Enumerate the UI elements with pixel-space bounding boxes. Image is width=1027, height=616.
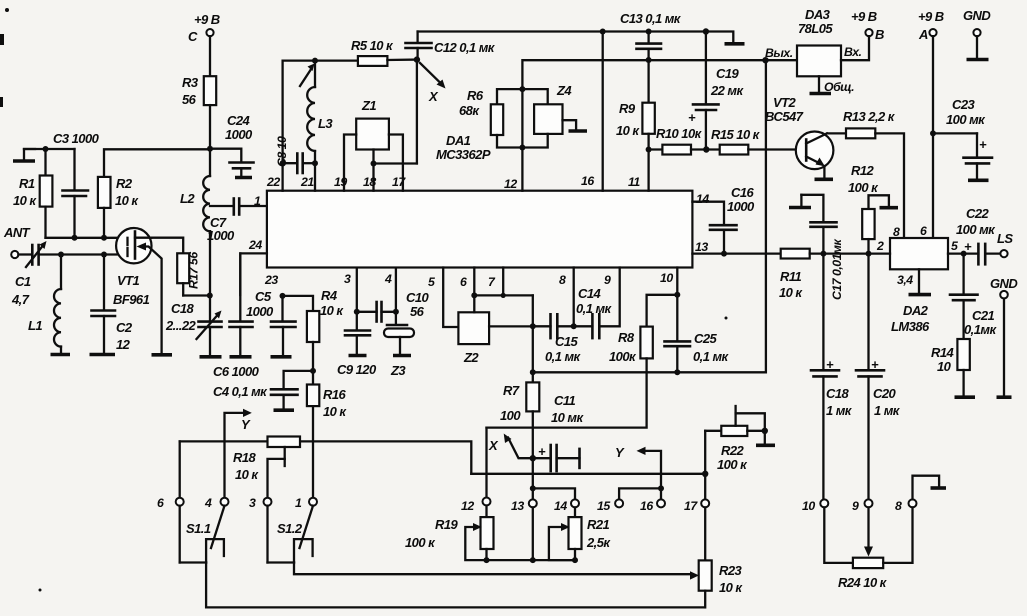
wire long line to R22 [471, 471, 708, 477]
capacitor C15 [533, 314, 582, 364]
node C2 top [101, 252, 107, 258]
resistor R16 [307, 371, 348, 498]
svg-text:0,1 мк: 0,1 мк [545, 349, 582, 364]
wire tank top rail [283, 58, 358, 191]
capacitor C24 [210, 113, 254, 178]
wire X column to Z1 [416, 60, 418, 164]
capacitor C14 [574, 268, 620, 339]
wire pin4 column [395, 268, 397, 312]
svg-text:Z2: Z2 [463, 350, 479, 365]
quartz Z2 [458, 312, 489, 365]
svg-text:100 мк: 100 мк [956, 222, 996, 237]
svg-text:R3: R3 [182, 75, 199, 90]
resistor R1 [13, 149, 52, 238]
svg-text:1: 1 [295, 496, 302, 510]
connector contact 17 [684, 499, 709, 513]
wire Z2 right [489, 323, 536, 329]
capacitor C10 [357, 290, 430, 322]
svg-text:VT1: VT1 [117, 273, 140, 288]
svg-text:6: 6 [157, 496, 164, 510]
capacitor C25 [665, 331, 730, 372]
connector contact 13 [511, 499, 537, 513]
wire C3-rail left [24, 148, 75, 150]
ground DA3 [810, 76, 832, 93]
svg-text:С13 0,1 мк: С13 0,1 мк [620, 11, 682, 26]
transistor VT1 BF961 [113, 228, 172, 355]
wire pin16 column [602, 32, 604, 191]
svg-text:1000: 1000 [727, 199, 755, 214]
svg-text:R4: R4 [321, 288, 338, 303]
svg-text:10 к: 10 к [13, 193, 37, 208]
svg-text:DA3: DA3 [805, 7, 831, 22]
svg-text:А: А [918, 27, 928, 42]
connector contact 4 [204, 496, 229, 510]
svg-text:ВС547: ВС547 [765, 109, 804, 124]
svg-text:1 мк: 1 мк [826, 403, 853, 418]
ground R22 [756, 431, 775, 446]
svg-text:С16: С16 [731, 185, 755, 200]
svg-text:С5: С5 [255, 289, 272, 304]
svg-text:R18: R18 [233, 450, 257, 465]
svg-text:С18: С18 [826, 386, 850, 401]
connector contact 1 [295, 496, 317, 510]
svg-text:GND: GND [963, 8, 991, 23]
svg-text:R22: R22 [721, 443, 745, 458]
terminal +9V B [841, 9, 884, 60]
inductor L1 [28, 255, 70, 355]
svg-text:19: 19 [334, 175, 347, 189]
svg-text:R23: R23 [719, 563, 743, 578]
svg-text:R1: R1 [19, 176, 35, 191]
svg-text:С1: С1 [15, 274, 31, 289]
svg-text:6: 6 [920, 224, 927, 238]
svg-text:0,1 мк: 0,1 мк [576, 301, 613, 316]
ground C17 top [789, 195, 811, 208]
capacitor C3 [53, 131, 100, 238]
svg-text:С9 120: С9 120 [337, 362, 377, 377]
wire R19 wiper loop [465, 523, 489, 563]
svg-text:R19: R19 [435, 517, 459, 532]
regulator DA3 78L05 [765, 7, 862, 94]
node Y (arrow, S1.1) [225, 409, 252, 498]
svg-text:10: 10 [937, 359, 952, 374]
svg-text:17: 17 [684, 499, 698, 513]
svg-text:С4 0,1 мк: С4 0,1 мк [213, 384, 268, 399]
wire pin17 to Z1 [389, 135, 403, 191]
capacitor C23 [933, 97, 992, 180]
svg-text:R2: R2 [116, 176, 133, 191]
node C19/R10/R15 [703, 146, 709, 152]
wire S1.1 pole to bottom rail [206, 563, 704, 608]
svg-text:+9 В: +9 В [194, 12, 220, 27]
wire VT1 drain to R17 [151, 238, 183, 254]
svg-text:9: 9 [604, 273, 611, 287]
svg-text:4: 4 [384, 272, 392, 286]
switch S1.1 [180, 506, 225, 563]
svg-text:10: 10 [660, 271, 673, 285]
svg-text:2,5к: 2,5к [586, 535, 611, 550]
svg-text:BF961: BF961 [113, 292, 150, 307]
connector contact 6 [157, 496, 184, 510]
svg-text:+: + [871, 357, 879, 372]
resistor R22 [705, 426, 765, 472]
svg-text:Вых.: Вых. [765, 46, 793, 60]
ground DA2 [909, 269, 932, 294]
quartz Z3 [384, 312, 414, 378]
resistor R4 [283, 288, 345, 371]
node X bottom (arrow) [488, 434, 536, 462]
svg-text:С12 0,1 мк: С12 0,1 мк [434, 40, 496, 55]
svg-text:5: 5 [951, 239, 958, 253]
svg-text:R11: R11 [780, 269, 802, 284]
svg-text:LМ386: LМ386 [891, 319, 930, 334]
svg-text:10 к: 10 к [616, 123, 640, 138]
svg-text:17: 17 [392, 175, 406, 189]
capacitor C5 [246, 289, 296, 357]
resistor R13 [827, 109, 904, 238]
svg-text:С10: С10 [406, 290, 430, 305]
svg-text:R21: R21 [587, 517, 610, 532]
svg-text:С14: С14 [578, 286, 602, 301]
svg-text:10 к: 10 к [779, 285, 803, 300]
svg-text:4: 4 [204, 496, 212, 510]
svg-text:R16: R16 [323, 387, 347, 402]
svg-text:С22: С22 [966, 206, 990, 221]
node R6/Z4 bottom [519, 145, 525, 151]
svg-text:R12: R12 [851, 163, 875, 178]
node R1 top [43, 146, 49, 152]
capacitor C8 [275, 136, 318, 173]
wire circle6 column [179, 441, 181, 497]
wire pin11 column [647, 150, 649, 191]
svg-text:С3 1000: С3 1000 [53, 131, 100, 146]
svg-text:12: 12 [116, 337, 131, 352]
svg-text:С21: С21 [972, 308, 995, 323]
resistor R6 [459, 88, 522, 148]
svg-text:12: 12 [461, 499, 474, 513]
svg-text:+: + [979, 137, 987, 152]
svg-text:2: 2 [876, 239, 884, 253]
node pin23/C5 [280, 293, 286, 299]
terminal ANT [3, 225, 31, 258]
svg-text:R5 10 к: R5 10 к [351, 38, 394, 53]
transistor VT2 BC547 [765, 95, 833, 179]
svg-text:68к: 68к [459, 103, 480, 118]
svg-text:L3: L3 [318, 116, 333, 131]
capacitor C2 [90, 255, 133, 355]
svg-text:11: 11 [628, 175, 640, 189]
svg-text:+: + [964, 239, 972, 254]
wire volume bus [487, 507, 576, 563]
svg-text:R13 2,2 к: R13 2,2 к [843, 109, 896, 124]
svg-text:0,1мк: 0,1мк [964, 322, 997, 337]
svg-text:DA2: DA2 [903, 303, 929, 318]
resistor R5 [351, 38, 417, 66]
terminal +9V A [918, 9, 944, 238]
svg-text:R10 10к: R10 10к [656, 126, 703, 141]
svg-text:22: 22 [266, 175, 280, 189]
svg-text:22 мк: 22 мк [710, 83, 744, 98]
ground (top-left) [13, 149, 35, 161]
connector contact 14 [554, 499, 579, 513]
amplifier DA2 LM386 [890, 238, 948, 334]
node main rail [207, 146, 213, 152]
quartz Z1 [356, 98, 389, 150]
svg-text:1 мк: 1 мк [874, 403, 901, 418]
IC DA1 MC3362P [267, 133, 693, 268]
svg-text:Z1: Z1 [361, 98, 376, 113]
svg-text:С15: С15 [555, 334, 579, 349]
resistor R3 [182, 75, 216, 149]
resistor R19 [405, 506, 494, 561]
terminal +9V C [188, 12, 220, 76]
inductor L3 (variable) [300, 61, 333, 164]
wire Z1 bottom / pin18 / X [371, 150, 417, 191]
svg-text:R15 10 к: R15 10 к [711, 127, 761, 142]
wire pin19 to Z1 [344, 135, 356, 191]
svg-text:VT2: VT2 [773, 95, 797, 110]
svg-text:Z4: Z4 [556, 83, 572, 98]
wire R8 to pin12 [485, 428, 487, 498]
svg-text:С20: С20 [873, 386, 897, 401]
svg-text:10 к: 10 к [323, 404, 347, 419]
svg-text:56: 56 [182, 92, 197, 107]
capacitor C11 [533, 393, 585, 471]
connector contact 16 [640, 499, 665, 513]
node R11/C17 [820, 251, 826, 257]
resistor R24 [824, 507, 912, 590]
svg-text:14: 14 [554, 499, 567, 513]
wire +5V feed bottom [533, 60, 766, 375]
svg-text:С2: С2 [116, 320, 133, 335]
resistor R15 [711, 127, 798, 155]
wire pin6 to Z2 top [471, 268, 477, 313]
resistor R14 [931, 339, 975, 397]
svg-text:L1: L1 [28, 318, 42, 333]
resistor R21 [569, 507, 612, 560]
capacitor C19 [688, 32, 744, 150]
svg-text:100 к: 100 к [717, 457, 748, 472]
svg-text:10: 10 [802, 499, 815, 513]
terminal GND right [990, 276, 1018, 397]
svg-text:3,4: 3,4 [897, 273, 913, 287]
resistor R18 [233, 437, 300, 498]
svg-text:13: 13 [695, 240, 708, 254]
svg-text:S1.1: S1.1 [186, 521, 211, 536]
wire R24 wiper [864, 507, 873, 556]
svg-text:С18: С18 [171, 301, 195, 316]
svg-text:10 мк: 10 мк [551, 410, 584, 425]
resistor R8 [487, 295, 678, 428]
svg-text:1: 1 [254, 194, 261, 208]
svg-text:16: 16 [640, 499, 653, 513]
svg-text:56: 56 [410, 304, 425, 319]
capacitor C22 [956, 206, 1000, 264]
node pin4/Z3 [393, 309, 399, 315]
svg-text:8: 8 [893, 225, 900, 239]
wire pin8 column [571, 268, 577, 330]
svg-text:78L05: 78L05 [798, 21, 833, 36]
terminal LS [997, 231, 1013, 257]
wire VT1 gate1 [46, 235, 128, 241]
capacitor C18a (1uF) [811, 254, 853, 500]
svg-text:21: 21 [300, 175, 314, 189]
svg-text:100к: 100к [609, 349, 637, 364]
svg-text:10 к: 10 к [320, 303, 344, 318]
svg-text:10 к: 10 к [115, 193, 139, 208]
capacitor C16 [692, 185, 755, 254]
svg-text:4,7: 4,7 [11, 292, 30, 307]
capacitor C12 [406, 32, 496, 60]
wire R18 line [180, 441, 472, 473]
wire pin10 column [674, 268, 680, 341]
svg-text:R14: R14 [931, 345, 955, 360]
svg-text:Вх.: Вх. [844, 45, 862, 59]
wire pin21 [314, 163, 316, 191]
svg-text:С8 10: С8 10 [275, 136, 289, 167]
svg-text:0,1 мк: 0,1 мк [693, 349, 730, 364]
svg-text:14: 14 [696, 192, 709, 206]
scan artifacts [0, 8, 728, 592]
svg-text:GND: GND [990, 276, 1018, 291]
svg-text:3: 3 [249, 496, 256, 510]
capacitor C4 [213, 371, 313, 410]
svg-text:1000: 1000 [246, 304, 274, 319]
ground Z4 tab [563, 120, 588, 131]
wire R17 to L2 column [183, 293, 213, 299]
svg-text:9: 9 [852, 499, 859, 513]
resistor R17 [177, 252, 200, 296]
svg-text:ANT: ANT [3, 225, 31, 240]
svg-text:6: 6 [460, 275, 467, 289]
svg-text:+9 В: +9 В [918, 9, 944, 24]
svg-text:+: + [826, 357, 834, 372]
svg-text:1000: 1000 [225, 127, 253, 142]
svg-text:МС3362Р: МС3362Р [436, 147, 491, 162]
svg-text:8: 8 [559, 273, 566, 287]
node L1 top [58, 252, 64, 258]
wire pin13 [692, 251, 780, 257]
svg-text:+: + [538, 444, 546, 459]
svg-text:С24: С24 [227, 113, 251, 128]
resistor R10 [649, 126, 720, 155]
svg-text:3: 3 [344, 272, 351, 286]
wire pin2 DA2 [823, 251, 890, 257]
wire rail +5V (Vyx) [522, 57, 797, 191]
svg-text:15: 15 [597, 499, 610, 513]
svg-text:+: + [688, 110, 696, 125]
svg-text:+9 В: +9 В [851, 9, 877, 24]
resistor R2 [98, 176, 140, 238]
capacitor C1 (variable) [11, 241, 128, 307]
svg-text:L2: L2 [180, 191, 195, 206]
quartz Z4 [522, 83, 572, 148]
svg-text:В: В [875, 27, 884, 42]
wire top rail +9 [418, 28, 745, 44]
wire R22 wiper [736, 406, 768, 434]
svg-text:R24 10 к: R24 10 к [838, 575, 888, 590]
terminal GND top [963, 8, 991, 60]
svg-text:23: 23 [264, 273, 278, 287]
resistor R11 [779, 249, 823, 300]
svg-text:R17 56: R17 56 [187, 252, 201, 289]
svg-text:5: 5 [428, 275, 435, 289]
svg-text:16: 16 [581, 174, 594, 188]
capacitor C7 [207, 199, 267, 244]
svg-text:S1.2: S1.2 [277, 521, 303, 536]
wire pin5/C22 [948, 251, 967, 257]
wire pin15 link [619, 488, 661, 499]
connector contact 9 [852, 499, 873, 513]
ground R12 top [869, 195, 899, 209]
capacitor C18 (variable 2...22) [165, 296, 222, 357]
connector contact 8 [895, 499, 917, 513]
wire R22 left to pin17 [704, 431, 706, 500]
node R5/C12 X [414, 56, 420, 62]
connector contact 12 [461, 498, 491, 514]
svg-text:100: 100 [500, 408, 521, 423]
resistor R9 [616, 60, 655, 150]
svg-text:DA1: DA1 [446, 133, 471, 148]
svg-text:С19: С19 [716, 66, 740, 81]
svg-text:8: 8 [895, 499, 902, 513]
svg-text:С17 0,01мк: С17 0,01мк [830, 238, 844, 300]
capacitor C21 [950, 254, 997, 339]
svg-text:10 к: 10 к [235, 467, 259, 482]
svg-text:С23: С23 [952, 97, 976, 112]
connector contact 15 [597, 499, 623, 513]
ground contact 8 [913, 476, 947, 500]
wire long Y-line to pin16 [615, 445, 664, 499]
capacitor C13 [620, 11, 682, 60]
resistor R7 [500, 326, 539, 503]
wire pin24 [240, 253, 267, 295]
switch S1.2 [268, 506, 314, 563]
wire pin5 to Z2 [443, 268, 458, 328]
svg-text:100 мк: 100 мк [946, 112, 986, 127]
svg-text:100 к: 100 к [405, 535, 436, 550]
node X (arrow) [420, 63, 446, 104]
wire pin14 link [530, 485, 575, 499]
node R4/R16/C4 [310, 368, 316, 374]
svg-text:18: 18 [363, 175, 376, 189]
node R6/Z4 top [519, 86, 525, 92]
connector contact 3 [249, 496, 272, 510]
wire pin3 column [354, 268, 360, 315]
svg-text:2...22: 2...22 [165, 318, 197, 333]
wire R21 wiper loop [549, 523, 578, 563]
connector contact 10 [802, 499, 828, 513]
resistor R23 [699, 507, 744, 607]
svg-text:Z3: Z3 [390, 363, 406, 378]
svg-text:13: 13 [511, 499, 524, 513]
svg-text:R8: R8 [618, 330, 635, 345]
svg-text:12: 12 [504, 177, 517, 191]
svg-text:С25: С25 [694, 331, 718, 346]
wire S1.2 pole to R23 wiper [294, 563, 699, 580]
node R9/R10/pin11 [646, 147, 652, 153]
svg-text:10 к: 10 к [719, 580, 743, 595]
svg-text:R7: R7 [503, 383, 520, 398]
svg-text:LS: LS [997, 231, 1013, 246]
wire R2 top rail [104, 149, 210, 177]
svg-text:24: 24 [248, 238, 262, 252]
wire pin6/pin7 link [474, 268, 533, 327]
svg-text:100 к: 100 к [848, 180, 879, 195]
capacitor C20 [856, 254, 901, 500]
svg-text:1000: 1000 [207, 228, 235, 243]
capacitor C17 [801, 195, 844, 300]
